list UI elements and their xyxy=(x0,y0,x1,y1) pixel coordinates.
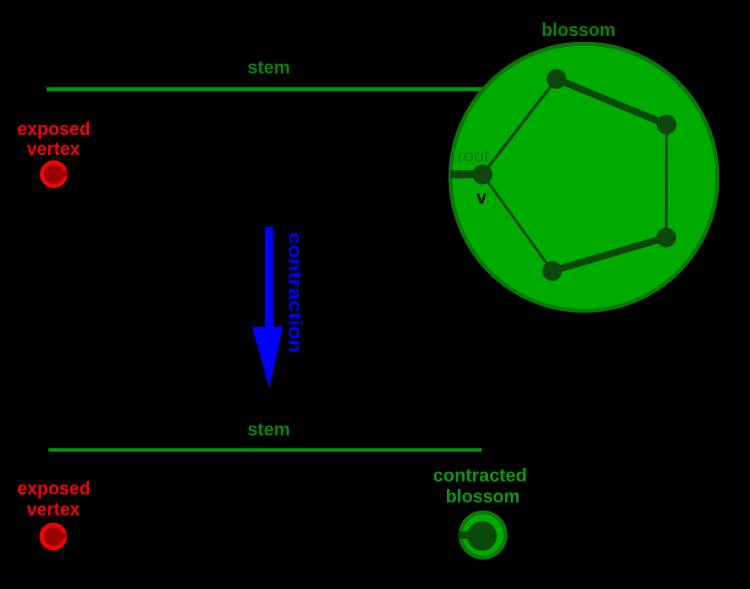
svg-text:root: root xyxy=(457,147,489,166)
node: contracted blossom xyxy=(459,513,506,558)
svg-text:vertex: vertex xyxy=(27,139,80,159)
blossom circle xyxy=(451,44,718,311)
svg-text:exposed: exposed xyxy=(17,479,90,499)
node: top vertex xyxy=(547,69,567,89)
node: lower-right vertex xyxy=(656,228,676,248)
edge top-UR (thick, matched) xyxy=(557,79,667,125)
edge bottom-root (thin) xyxy=(483,175,553,272)
svg-text:blossom: blossom xyxy=(446,487,520,507)
svg-text:contracted: contracted xyxy=(433,466,527,486)
node: root vertex xyxy=(473,165,493,185)
svg-text:vertex: vertex xyxy=(27,499,80,519)
edge root-top (thin) xyxy=(483,79,557,175)
svg-text:stem: stem xyxy=(248,58,291,78)
wire: stem line (top) xyxy=(47,87,485,91)
node: upper-right vertex xyxy=(657,115,677,135)
wire: stem line (bottom) xyxy=(49,448,482,452)
svg-text:stem: stem xyxy=(248,420,291,440)
wire: stub to root xyxy=(450,170,483,178)
svg-text:v: v xyxy=(477,188,487,208)
node: exposed vertex (top) xyxy=(42,162,67,186)
arrow: contraction (shaft) xyxy=(265,227,273,328)
arrow: contraction (head) xyxy=(252,327,283,388)
svg-text:contraction: contraction xyxy=(285,232,305,353)
node: bottom vertex xyxy=(542,261,562,281)
edge UR-LR (thin) xyxy=(665,125,668,238)
node: exposed vertex (bottom) xyxy=(42,525,67,549)
edge LR-bottom (thick, matched) xyxy=(552,238,666,272)
svg-text:blossom: blossom xyxy=(541,20,615,40)
svg-text:exposed: exposed xyxy=(17,119,90,139)
